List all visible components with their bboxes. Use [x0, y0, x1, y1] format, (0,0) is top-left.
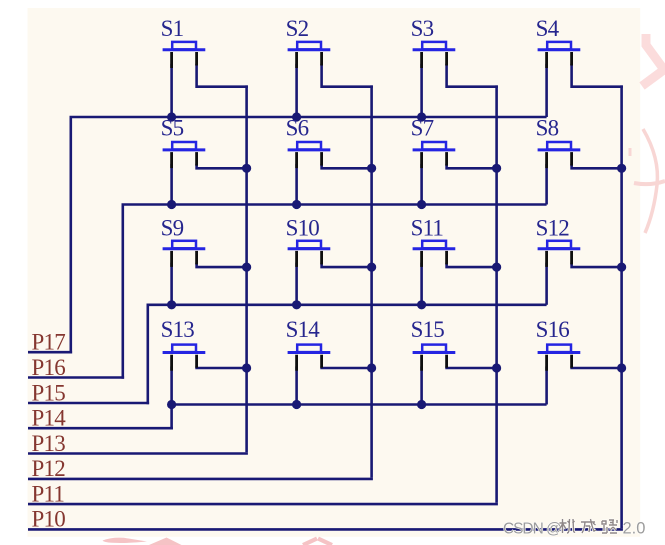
svg-text:S8: S8	[536, 116, 559, 141]
svg-text:S6: S6	[286, 116, 309, 141]
svg-text:S3: S3	[411, 16, 434, 41]
svg-text:S13: S13	[161, 317, 195, 342]
svg-text:S10: S10	[286, 216, 320, 241]
svg-text:S2: S2	[286, 16, 309, 41]
svg-text:2.0: 2.0	[623, 520, 646, 538]
svg-text:S9: S9	[161, 216, 184, 241]
svg-text:P13: P13	[32, 431, 66, 456]
svg-text:S1: S1	[161, 16, 184, 41]
svg-text:P10: P10	[32, 507, 66, 532]
svg-text:P16: P16	[32, 355, 66, 380]
svg-text:S5: S5	[161, 116, 184, 141]
svg-text:S15: S15	[411, 317, 445, 342]
svg-text:P15: P15	[32, 380, 66, 405]
svg-text:S16: S16	[536, 317, 570, 342]
svg-text:P12: P12	[32, 456, 66, 481]
svg-text:P14: P14	[32, 406, 67, 431]
svg-text:CSDN @: CSDN @	[503, 521, 561, 538]
svg-text:S12: S12	[536, 216, 570, 241]
svg-text:S4: S4	[536, 16, 560, 41]
svg-text:P17: P17	[32, 330, 66, 355]
svg-text:P11: P11	[32, 481, 65, 506]
svg-text:S7: S7	[411, 116, 434, 141]
svg-text:S11: S11	[411, 216, 444, 241]
svg-text:S14: S14	[286, 317, 321, 342]
